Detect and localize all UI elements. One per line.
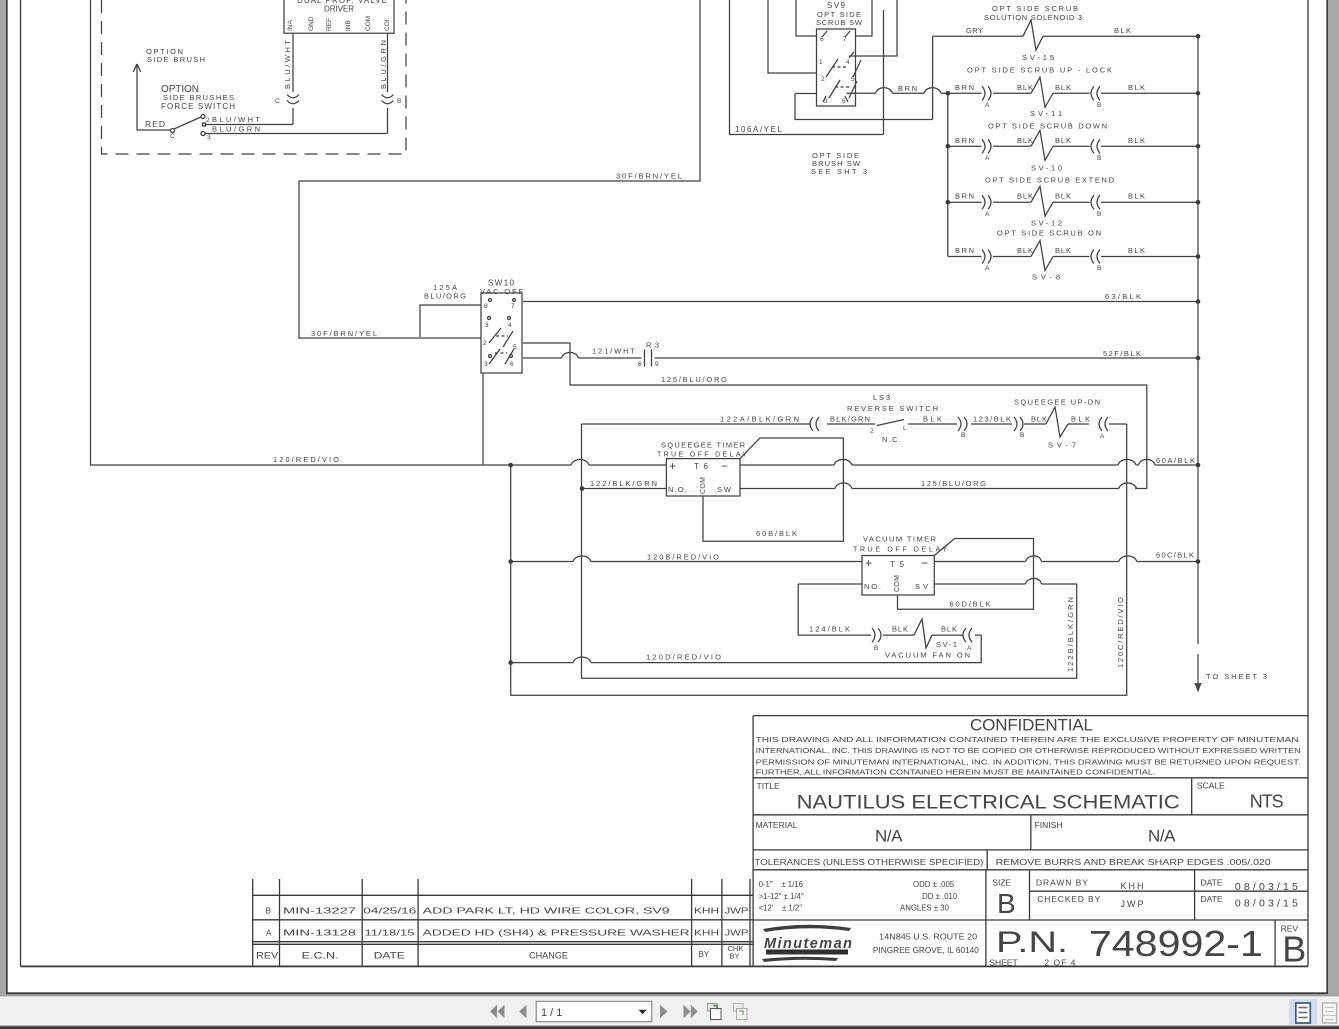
svg-text:JWP: JWP (725, 929, 750, 938)
svg-text:BLK: BLK (1128, 83, 1145, 92)
svg-text:SIDE BRUSHES: SIDE BRUSHES (163, 93, 234, 102)
svg-text:SW: SW (717, 485, 732, 494)
svg-text:INTERNATIONAL, INC. THIS DRAWI: INTERNATIONAL, INC. THIS DRAWING IS NOT … (756, 746, 1301, 755)
svg-text:BLK: BLK (1055, 83, 1071, 92)
svg-text:1 / 1: 1 / 1 (541, 1007, 562, 1019)
svg-text:GRY: GRY (966, 26, 983, 35)
svg-text:INB: INB (345, 20, 352, 31)
svg-text:9: 9 (655, 361, 659, 368)
svg-text:KHH: KHH (1121, 881, 1146, 891)
svg-text:CHANGE: CHANGE (529, 951, 568, 961)
svg-text:OPT SIDE SCRUB EXTEND: OPT SIDE SCRUB EXTEND (985, 176, 1115, 185)
svg-text:CONFIDENTIAL: CONFIDENTIAL (970, 716, 1095, 735)
svg-text:JWP: JWP (1121, 899, 1146, 909)
svg-text:JWP: JWP (725, 907, 750, 916)
svg-text:B: B (1282, 929, 1306, 970)
svg-text:SEE SHT 3: SEE SHT 3 (811, 167, 867, 176)
svg-text:0-1″ ± 1/16: 0-1″ ± 1/16 (759, 880, 803, 889)
svg-text:BRN: BRN (955, 83, 974, 92)
svg-text:OPT SIDE SCRUB ON: OPT SIDE SCRUB ON (997, 229, 1101, 238)
svg-text:B: B (874, 645, 878, 652)
svg-text:MIN-13128: MIN-13128 (283, 929, 357, 938)
svg-text:B: B (1097, 102, 1101, 109)
svg-text:7: 7 (511, 303, 515, 310)
svg-text:SV-15: SV-15 (1022, 53, 1054, 62)
svg-text:THIS DRAWING AND ALL INFORMATI: THIS DRAWING AND ALL INFORMATION CONTAIN… (756, 735, 1299, 744)
svg-text:TO SHEET 3: TO SHEET 3 (1206, 672, 1267, 681)
svg-text:B: B (997, 888, 1016, 919)
svg-text:BLK: BLK (1031, 415, 1047, 424)
svg-text:11/18/15: 11/18/15 (365, 929, 416, 938)
svg-text:SQUEEGEE UP-DN: SQUEEGEE UP-DN (1014, 398, 1100, 407)
svg-text:FORCE SWITCH: FORCE SWITCH (161, 102, 235, 111)
svg-text:C: C (170, 133, 175, 140)
svg-text:2: 2 (821, 76, 825, 83)
svg-text:TITLE: TITLE (757, 781, 780, 791)
svg-text:CHECKED BY: CHECKED BY (1037, 894, 1100, 904)
svg-text:LS3: LS3 (873, 393, 890, 402)
svg-text:NAUTILUS ELECTRICAL SCHEMATIC: NAUTILUS ELECTRICAL SCHEMATIC (797, 792, 1180, 814)
svg-text:P.N.: P.N. (996, 926, 1068, 959)
svg-text:GND: GND (308, 16, 315, 31)
svg-text:PINGREE GROVE, IL 60140: PINGREE GROVE, IL 60140 (873, 946, 980, 955)
svg-text:N/A: N/A (1148, 827, 1176, 846)
svg-text:COM: COM (365, 16, 372, 31)
svg-text:2: 2 (870, 428, 874, 435)
svg-text:SV-11: SV-11 (1030, 109, 1062, 118)
svg-text:OPT SIDE SCRUB DOWN: OPT SIDE SCRUB DOWN (988, 122, 1107, 131)
svg-text:A: A (266, 929, 272, 938)
svg-text:6: 6 (510, 361, 514, 368)
svg-text:N.O.: N.O. (668, 485, 687, 494)
svg-text:3: 3 (484, 361, 488, 368)
svg-text:N.C.: N.C. (882, 435, 901, 444)
svg-text:SV-10: SV-10 (1031, 164, 1062, 173)
svg-text:PERMISSION OF MINUTEMAN INTERN: PERMISSION OF MINUTEMAN INTERNATIONAL, I… (756, 757, 1301, 766)
svg-text:B: B (266, 907, 272, 916)
svg-text:14N845 U.S. ROUTE 20: 14N845 U.S. ROUTE 20 (879, 933, 978, 942)
svg-text:ADDED HD (SH4) & PRESSURE WASH: ADDED HD (SH4) & PRESSURE WASHER (423, 929, 690, 938)
svg-text:SCRUB SW: SCRUB SW (816, 18, 863, 27)
svg-text:BLK: BLK (941, 625, 957, 634)
svg-text:Excellence Made Clean: Excellence Made Clean (772, 950, 819, 955)
svg-text:748992-1: 748992-1 (1089, 923, 1263, 964)
svg-text:8: 8 (484, 303, 488, 310)
svg-text:BLK: BLK (1017, 83, 1033, 92)
svg-text:REF: REF (326, 18, 333, 31)
svg-text:B: B (397, 98, 401, 105)
svg-text:04/25/16: 04/25/16 (363, 907, 417, 916)
svg-text:2: 2 (206, 117, 210, 124)
svg-text:52F/BLK: 52F/BLK (1103, 349, 1141, 358)
svg-text:C: C (275, 98, 280, 105)
svg-text:SHEET: SHEET (989, 958, 1017, 968)
svg-text:−: − (721, 459, 728, 473)
svg-text:SCALE: SCALE (1197, 781, 1225, 791)
svg-text:ADD PARK LT, HD WIRE COLOR, SV: ADD PARK LT, HD WIRE COLOR, SV9 (423, 907, 671, 916)
svg-text:BY: BY (730, 952, 740, 961)
svg-text:REV: REV (256, 951, 278, 961)
svg-text:RED: RED (145, 119, 165, 129)
svg-text:+: + (669, 459, 676, 473)
svg-text:30F/BRN/YEL: 30F/BRN/YEL (311, 329, 377, 338)
svg-text:>1-12″ ± 1/4″: >1-12″ ± 1/4″ (759, 892, 804, 901)
svg-text:A: A (1100, 433, 1105, 440)
svg-text:BLK: BLK (1071, 415, 1090, 424)
svg-text:3: 3 (485, 322, 489, 329)
svg-text:SV-1: SV-1 (936, 640, 957, 649)
svg-text:B: B (1020, 432, 1024, 439)
svg-text:B: B (961, 432, 965, 439)
svg-text:MIN-13227: MIN-13227 (283, 907, 357, 916)
svg-text:E.C.N.: E.C.N. (302, 951, 339, 961)
svg-text:ODD ± .005: ODD ± .005 (913, 880, 955, 889)
svg-text:KHH: KHH (694, 907, 719, 916)
svg-text:COM: COM (894, 575, 901, 592)
svg-text:COM: COM (700, 477, 707, 494)
svg-text:2 OF 4: 2 OF 4 (1044, 958, 1076, 968)
svg-text:5: 5 (851, 76, 855, 83)
svg-text:BLK: BLK (1114, 26, 1131, 35)
svg-text:6: 6 (842, 98, 846, 105)
svg-text:SOLUTION SOLENOID 3: SOLUTION SOLENOID 3 (984, 13, 1082, 22)
svg-text:SV9: SV9 (827, 1, 846, 10)
svg-text:5: 5 (513, 344, 517, 351)
svg-text:4: 4 (508, 322, 512, 329)
svg-text:A: A (985, 102, 990, 109)
svg-text:+: + (865, 556, 872, 570)
svg-text:<12′ ± 1/2″: <12′ ± 1/2″ (759, 904, 803, 913)
svg-text:BLK/GRN: BLK/GRN (830, 415, 870, 424)
svg-text:BY: BY (699, 950, 710, 959)
svg-text:FINISH: FINISH (1035, 820, 1063, 830)
svg-text:DATE: DATE (1201, 894, 1223, 904)
svg-text:3: 3 (207, 134, 211, 141)
svg-text:NO.: NO. (864, 582, 881, 591)
svg-text:DATE: DATE (1201, 878, 1223, 888)
svg-text:DRAWN BY: DRAWN BY (1036, 878, 1088, 888)
svg-text:TOLERANCES (UNLESS OTHERWISE S: TOLERANCES (UNLESS OTHERWISE SPECIFIED) (754, 858, 983, 867)
svg-text:N/A: N/A (875, 827, 903, 846)
svg-text:BRN: BRN (898, 84, 917, 93)
svg-text:INA: INA (287, 20, 294, 32)
svg-text:REMOVE BURRS AND BREAK SHARP E: REMOVE BURRS AND BREAK SHARP EDGES .005/… (996, 858, 1272, 867)
svg-text:60C/BLK: 60C/BLK (1156, 551, 1194, 560)
svg-text:COI: COI (384, 19, 391, 31)
svg-text:SQUEEGEE TIMER: SQUEEGEE TIMER (661, 441, 746, 450)
svg-text:2: 2 (483, 340, 487, 347)
svg-text:FURTHER, ALL INFORMATION CONTA: FURTHER, ALL INFORMATION CONTAINED HEREI… (756, 768, 1156, 777)
svg-text:4: 4 (846, 59, 850, 66)
svg-text:KHH: KHH (694, 929, 719, 938)
svg-text:1: 1 (819, 59, 823, 66)
svg-text:60A/BLK: 60A/BLK (1156, 456, 1195, 465)
svg-text:6: 6 (820, 36, 824, 43)
svg-text:SIZE: SIZE (992, 878, 1011, 888)
svg-text:123/BLK: 123/BLK (973, 415, 1011, 424)
svg-text:NTS: NTS (1250, 792, 1284, 812)
svg-text:BLK: BLK (923, 415, 942, 424)
svg-text:.DD ± .010: .DD ± .010 (920, 892, 958, 901)
svg-text:ANGLES ± 30: ANGLES ± 30 (900, 904, 950, 913)
svg-text:120/RED/VIO: 120/RED/VIO (273, 455, 339, 464)
svg-text:DATE: DATE (374, 951, 405, 961)
svg-text:3: 3 (824, 98, 828, 105)
svg-text:BLK: BLK (892, 625, 908, 634)
svg-text:SV-12: SV-12 (1031, 219, 1062, 228)
svg-text:DRIVER: DRIVER (324, 5, 354, 14)
svg-text:VACUUM FAN ON: VACUUM FAN ON (885, 651, 970, 660)
svg-text:30F/BRN/YEL: 30F/BRN/YEL (616, 172, 682, 181)
svg-text:7: 7 (843, 36, 847, 43)
svg-text:L: L (903, 425, 907, 432)
svg-text:−: − (921, 556, 928, 570)
svg-text:MATERIAL: MATERIAL (756, 820, 798, 830)
svg-text:6: 6 (638, 361, 642, 368)
